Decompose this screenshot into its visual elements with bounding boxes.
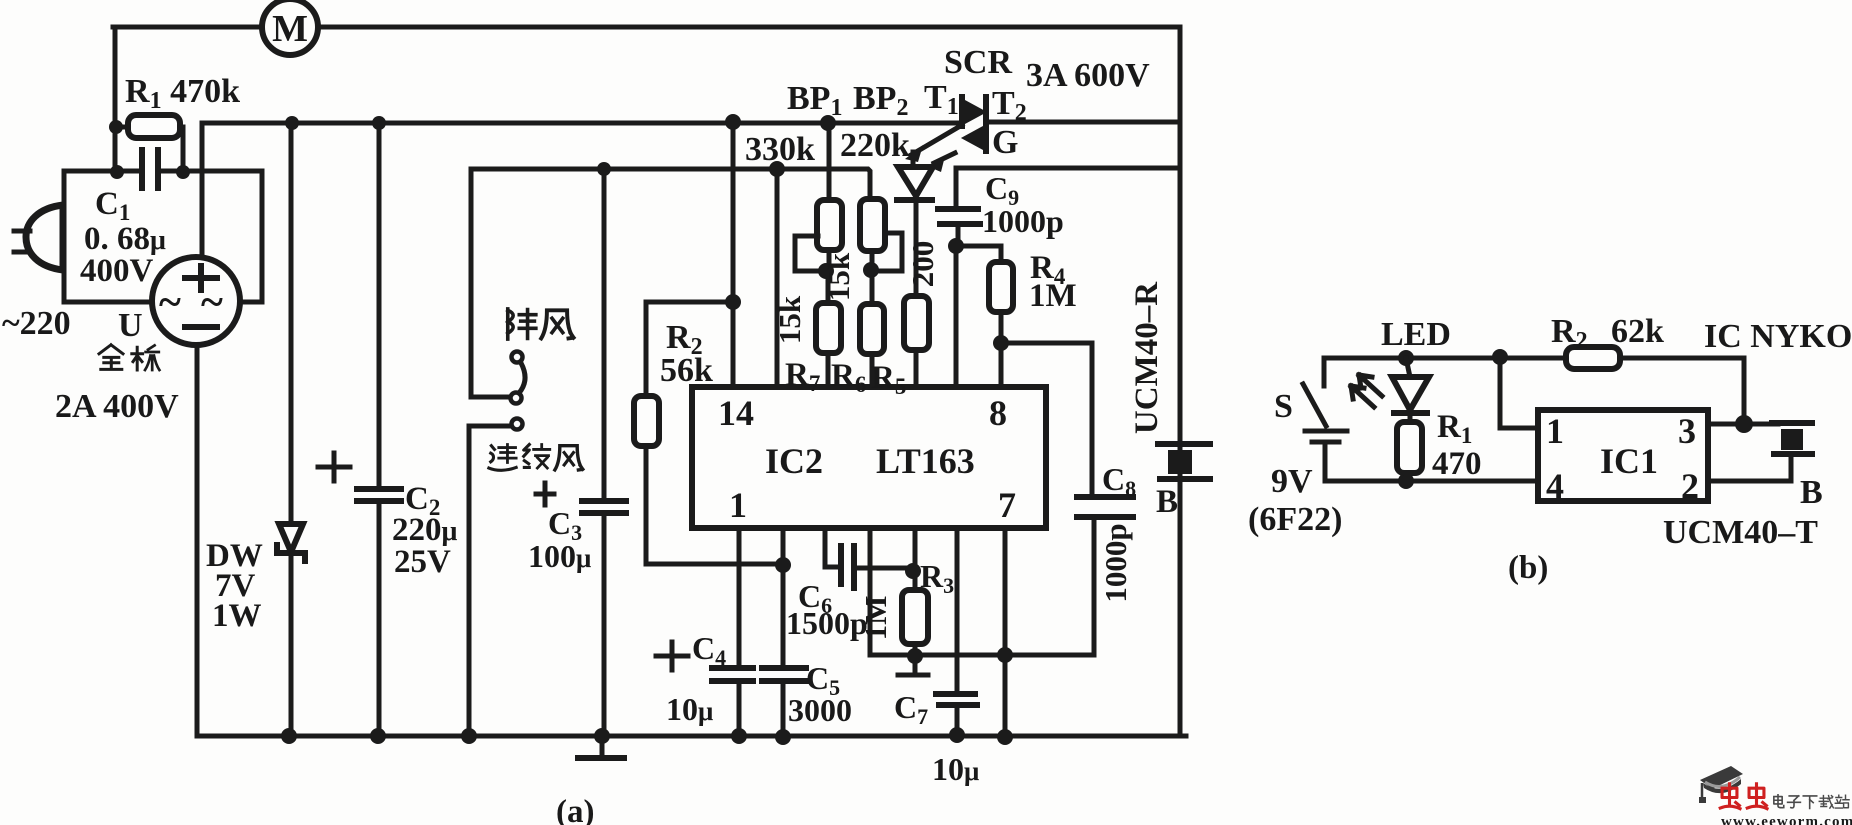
svg-text:470: 470 bbox=[1432, 446, 1482, 482]
resistor R1b 470 bbox=[1397, 422, 1422, 481]
wire bridge plus to bus2 bbox=[200, 123, 205, 257]
svg-text:0. 68μ: 0. 68μ bbox=[84, 221, 166, 257]
IC1 box bbox=[1538, 410, 1708, 506]
wire C1 right to bridge bbox=[183, 171, 262, 302]
svg-text:M: M bbox=[272, 8, 308, 50]
svg-text:3: 3 bbox=[1678, 411, 1696, 451]
node DW bottom bbox=[281, 728, 297, 744]
resistor R7 lower bbox=[816, 271, 841, 387]
capacitor C5 bbox=[762, 528, 806, 736]
svg-text:SCR: SCR bbox=[944, 44, 1012, 81]
switch mode contacts bbox=[511, 352, 526, 430]
transducer B transmitter bbox=[1772, 423, 1812, 481]
jog link left bbox=[795, 236, 820, 271]
svg-text:B: B bbox=[1800, 474, 1823, 511]
svg-text:LT163: LT163 bbox=[876, 441, 975, 481]
capacitor C1 bbox=[64, 150, 183, 188]
node R4 bottom bbox=[993, 335, 1009, 351]
label C2 value bbox=[392, 481, 458, 580]
capacitor C6 bbox=[825, 528, 912, 588]
svg-text:62k: 62k bbox=[1611, 313, 1664, 350]
svg-text:1W: 1W bbox=[212, 598, 262, 634]
node column1 mid bbox=[818, 263, 834, 279]
svg-text:14: 14 bbox=[718, 393, 754, 433]
svg-text:(b): (b) bbox=[1508, 550, 1548, 586]
svg-text:2: 2 bbox=[1681, 466, 1699, 506]
capacitor C4 bbox=[656, 528, 753, 736]
node C3 top bbox=[597, 162, 611, 176]
battery 9V bbox=[1305, 431, 1347, 481]
jog link right bbox=[876, 233, 902, 271]
resistor R3 bbox=[902, 528, 928, 657]
node pin3 junction bbox=[1735, 415, 1753, 433]
motor M bbox=[262, 0, 318, 55]
IC2 box bbox=[692, 387, 1046, 528]
svg-text:3A 600V: 3A 600V bbox=[1026, 57, 1150, 94]
wire R4 to pin8 bbox=[999, 343, 1004, 387]
capacitor C8 bbox=[1077, 497, 1133, 655]
resistor R6 lower bbox=[860, 270, 884, 387]
svg-text:25V: 25V bbox=[394, 544, 451, 580]
capacitor C9 bbox=[938, 168, 1180, 246]
node pin1 top bbox=[1492, 349, 1508, 365]
node LED bottom bbox=[1398, 473, 1414, 489]
zener DW bbox=[277, 123, 305, 736]
wire L1 to IC pin bbox=[775, 169, 780, 387]
svg-text:R1 470k: R1 470k bbox=[125, 73, 240, 114]
svg-text:220k: 220k bbox=[840, 127, 910, 164]
svg-text:U: U bbox=[118, 307, 143, 344]
wire bridge minus down bbox=[195, 345, 200, 736]
resistor 220k column upper bbox=[860, 199, 885, 268]
resistor 330k column upper bbox=[817, 123, 842, 268]
node C9 bottom bbox=[948, 238, 964, 254]
svg-text:400V: 400V bbox=[80, 253, 154, 289]
wire R4 junction to C8 bbox=[1001, 343, 1092, 497]
svg-text:S: S bbox=[1274, 388, 1293, 425]
node DW top bbox=[285, 116, 299, 130]
node switch ground bbox=[461, 728, 477, 744]
svg-text:1: 1 bbox=[1546, 411, 1564, 451]
svg-text:10μ: 10μ bbox=[932, 751, 979, 787]
wire battery to pin4 bbox=[1325, 479, 1538, 484]
wire right edge vertical bbox=[1178, 27, 1183, 736]
svg-text:56k: 56k bbox=[660, 352, 713, 389]
node C7 bottom bbox=[949, 727, 965, 743]
svg-text:IC2: IC2 bbox=[765, 441, 823, 481]
svg-text:330k: 330k bbox=[745, 131, 815, 168]
resistor R2b 62k bbox=[1566, 347, 1620, 369]
wire bus2 right of triac bbox=[988, 120, 1180, 125]
svg-text:1: 1 bbox=[729, 485, 747, 525]
svg-text:~: ~ bbox=[201, 280, 223, 326]
svg-text:100μ: 100μ bbox=[528, 538, 591, 574]
wire bottom ground bus bbox=[197, 734, 1186, 739]
svg-text:~220: ~220 bbox=[2, 305, 71, 342]
svg-text:UCM40–T: UCM40–T bbox=[1663, 514, 1818, 551]
wire left vertical from top bus bbox=[113, 27, 118, 171]
label R1b value bbox=[1432, 409, 1482, 482]
label C1 value bbox=[80, 186, 166, 289]
wire switch lower contact to ground bbox=[469, 426, 509, 736]
watermark site name bbox=[1774, 795, 1849, 809]
wire L1 switch line bbox=[471, 169, 870, 200]
node pin7 ground bbox=[997, 729, 1013, 745]
wire pin3 bbox=[1708, 422, 1778, 427]
wire pin7 column bbox=[1003, 528, 1008, 736]
resistor R2 bbox=[634, 302, 783, 564]
stub bar below R3 bbox=[898, 656, 928, 675]
svg-text:(a): (a) bbox=[556, 794, 594, 825]
wire plug box left and bottom bbox=[64, 171, 153, 302]
svg-text:9V: 9V bbox=[1271, 463, 1313, 500]
svg-text:UCM40–R: UCM40–R bbox=[1129, 281, 1165, 434]
svg-text:1000p: 1000p bbox=[982, 203, 1064, 239]
svg-text:IC NYKO: IC NYKO bbox=[1704, 318, 1852, 355]
capacitor C2 bbox=[318, 123, 401, 736]
bridge rectifier U bbox=[152, 257, 240, 345]
svg-text:LED: LED bbox=[1381, 316, 1451, 353]
node C2 bottom bbox=[370, 728, 386, 744]
capacitor C3 bbox=[536, 169, 626, 736]
wire C9 to IC pin bbox=[954, 246, 959, 387]
capacitor C7 bbox=[936, 528, 977, 736]
svg-text:220μ: 220μ bbox=[392, 512, 458, 548]
svg-text:3000: 3000 bbox=[788, 692, 852, 728]
gate diagonal wire bbox=[905, 125, 962, 162]
node 330k bus bbox=[820, 115, 836, 131]
circuit b top wire bbox=[1324, 356, 1744, 361]
AC plug bbox=[14, 205, 63, 270]
node R2 bottom bbox=[775, 557, 791, 573]
photodiode BP bbox=[897, 152, 933, 296]
label DW bbox=[206, 538, 263, 634]
label R2 value bbox=[660, 319, 713, 389]
node L1 tap bbox=[769, 161, 785, 177]
label C5 value bbox=[788, 660, 852, 728]
label C6 value bbox=[786, 578, 868, 641]
ground symbol bbox=[578, 728, 624, 758]
node LED top bbox=[1398, 350, 1414, 366]
triac SCR bbox=[962, 97, 986, 151]
switch S bbox=[1303, 358, 1326, 426]
wire bus2 rectified line bbox=[202, 121, 960, 126]
svg-text:200: 200 bbox=[905, 241, 940, 288]
svg-text:7: 7 bbox=[998, 485, 1016, 525]
resistor R5 200 bbox=[904, 296, 929, 387]
node pin7 return bbox=[997, 647, 1013, 663]
svg-text:(6F22): (6F22) bbox=[1248, 501, 1342, 538]
label bridge type bbox=[99, 345, 159, 370]
svg-text:15k: 15k bbox=[772, 295, 807, 344]
node pin14 bus bbox=[725, 114, 741, 130]
svg-text:1000p: 1000p bbox=[1098, 523, 1133, 602]
resistor R1 bbox=[115, 115, 183, 171]
node C5 bottom bbox=[775, 729, 791, 745]
node R1 left junction bbox=[109, 120, 123, 134]
node C1 left bbox=[110, 165, 124, 179]
node C1 right bbox=[176, 165, 190, 179]
svg-text:B: B bbox=[1156, 484, 1178, 520]
watermark chongchong red bbox=[1720, 784, 1767, 809]
label C3 value bbox=[528, 505, 591, 574]
node C2 top bbox=[372, 116, 386, 130]
svg-text:4: 4 bbox=[1546, 466, 1564, 506]
svg-text:www.eeworm.com: www.eeworm.com bbox=[1721, 814, 1852, 825]
wire top bus bbox=[113, 25, 1180, 30]
node R2 top bbox=[725, 294, 741, 310]
node C4 bottom bbox=[731, 728, 747, 744]
wire pin1 bbox=[1500, 357, 1538, 428]
label C9 value bbox=[982, 170, 1064, 239]
wire top right corner bbox=[1742, 358, 1747, 424]
label R4 value bbox=[1029, 250, 1077, 314]
svg-text:1500p: 1500p bbox=[786, 605, 868, 641]
node column2 mid bbox=[863, 262, 879, 278]
watermark cap logo bbox=[1699, 766, 1743, 803]
svg-text:8: 8 bbox=[989, 393, 1007, 433]
svg-text:IC1: IC1 bbox=[1600, 441, 1658, 481]
wire switch common branch bbox=[471, 169, 507, 397]
svg-text:1M: 1M bbox=[858, 596, 893, 641]
LED bbox=[1392, 358, 1429, 422]
wire pin2 bbox=[1708, 479, 1791, 484]
svg-text:1M: 1M bbox=[1029, 278, 1077, 314]
svg-text:~: ~ bbox=[159, 280, 181, 326]
svg-text:2A 400V: 2A 400V bbox=[55, 388, 179, 425]
label continuous mode bbox=[489, 444, 583, 470]
transducer B receiver bbox=[1158, 444, 1210, 479]
light arrow bbox=[927, 153, 955, 172]
node R3 top bbox=[905, 563, 921, 579]
wire return line to pin area bbox=[870, 528, 1094, 655]
wire pin14 column bbox=[731, 123, 736, 387]
svg-text:G: G bbox=[992, 124, 1018, 161]
label gust mode bbox=[508, 309, 574, 339]
node R3 bottom bbox=[907, 648, 923, 664]
resistor R4 bbox=[956, 246, 1013, 343]
svg-text:10μ: 10μ bbox=[666, 691, 713, 727]
LED emission arrows bbox=[1351, 375, 1382, 407]
svg-text:15k: 15k bbox=[821, 252, 856, 301]
